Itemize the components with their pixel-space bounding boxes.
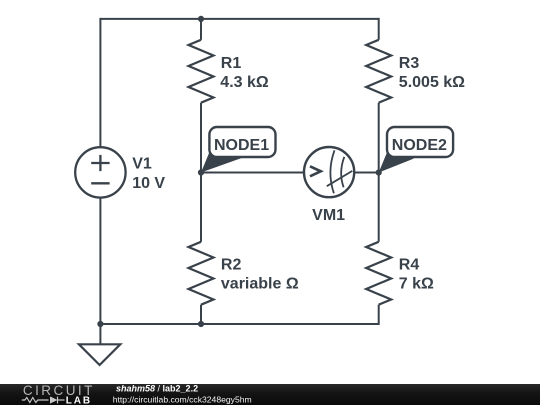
svg-text:http://circuitlab.com/cck3248e: http://circuitlab.com/cck3248egy5hm [113,394,252,404]
wire: R1 down to NODE1 [200,103,202,173]
svg-text:LAB: LAB [66,396,92,405]
wire: R2 down to bottom rail [200,305,202,324]
node NODE1 callout wedge [201,150,243,173]
svg-text:4.3 kΩ: 4.3 kΩ [220,74,269,91]
svg-text:variable Ω: variable Ω [221,275,299,292]
svg-text:NODE2: NODE2 [392,137,447,154]
wire: bottom rail [100,323,378,325]
wire: ground stub below bottom-left junction [99,324,101,344]
svg-text:R2: R2 [221,256,242,273]
resistor R1 [189,40,214,103]
label: R1 designator and value 4.3 kOhm [220,55,269,91]
junction: bottom node of R2 branch [198,321,204,327]
junction: NODE1 dot [198,169,204,175]
svg-text:R4: R4 [399,256,420,273]
junction: top node where R1 branch meets top rail [198,16,204,22]
svg-text:R3: R3 [399,55,420,72]
logo: resistor squiggle and diode [22,397,65,404]
label: R2 designator and value variable Ohm [221,256,299,292]
resistor R4 [366,242,391,305]
wire: R3 down to NODE2 [378,103,380,173]
label: R3 designator and value 5.005 kOhm [399,55,465,91]
svg-text:5.005 kΩ: 5.005 kΩ [399,74,465,91]
label: V1 designator and value 10 V [132,156,165,192]
logo: diode triangle [50,396,58,403]
wire: left branch vertical, top rail down to V1 [99,18,101,148]
svg-text:R1: R1 [221,55,242,72]
junction: bottom-left node above ground [97,321,103,327]
wire: NODE2 down to R4 [378,173,380,242]
svg-text:7 kΩ: 7 kΩ [399,275,434,292]
voltmeter VM1 [304,147,354,197]
svg-text:shahm58 / lab2_2.2: shahm58 / lab2_2.2 [116,383,198,393]
voltage source V1 [75,147,125,197]
wire: top rail corner down to R3 [378,18,380,40]
junction: NODE2 dot [376,169,382,175]
resistor R2 [189,242,214,305]
wire: NODE1 down to R2 [200,173,202,242]
svg-text:V1: V1 [132,156,152,173]
node NODE1 label box [209,127,275,157]
svg-text:NODE1: NODE1 [214,137,269,154]
footer bar [0,384,540,405]
label: R4 designator and value 7 kOhm [399,256,434,292]
svg-text:VM1: VM1 [312,207,345,224]
wire: top rail from left branch to right branch [100,18,378,20]
node NODE2 label box [387,127,453,157]
resistor R3 [366,40,391,103]
wire: stub from top rail to R1 [200,19,202,40]
svg-text:10 V: 10 V [132,175,165,192]
wire: NODE1 to voltmeter VM1 [201,172,304,174]
wire: left branch vertical, V1 down to bottom rail [99,197,101,324]
ground symbol [79,344,120,365]
wire: voltmeter VM1 to NODE2 [354,172,379,174]
node NODE2 callout wedge [379,150,414,173]
wire: R4 down to bottom rail corner [378,305,380,325]
